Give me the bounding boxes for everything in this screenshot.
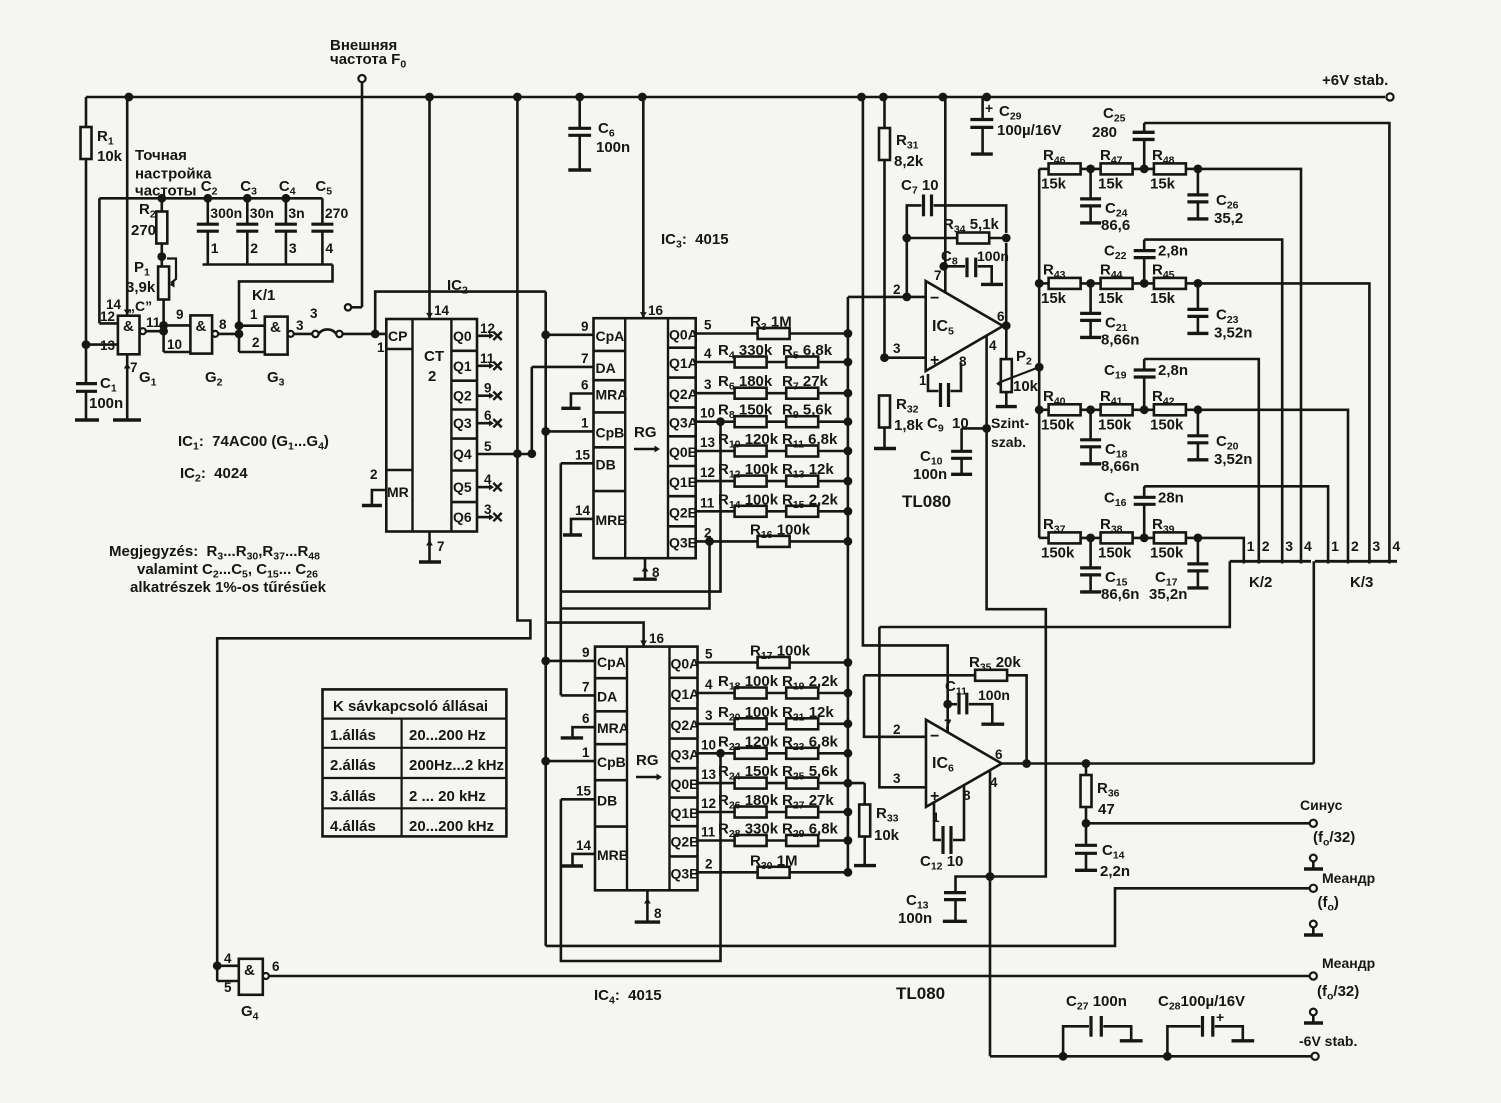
resistor R4 330k — [696, 361, 848, 364]
capacitor C10 100n — [982, 424, 991, 433]
capacitor C20 3,52n — [1197, 410, 1200, 436]
svg-text:15k: 15k — [1098, 175, 1124, 192]
svg-text:Q2: Q2 — [453, 388, 472, 404]
resistor R20 100k — [698, 722, 848, 725]
svg-text:R18 100k: R18 100k — [718, 673, 779, 693]
svg-text:RG: RG — [634, 424, 657, 441]
svg-text:10k: 10k — [1013, 378, 1039, 395]
resistor R23 6,8k — [786, 748, 818, 759]
svg-text:„C”: „C” — [128, 298, 152, 314]
svg-text:1,8k: 1,8k — [894, 417, 924, 434]
svg-text:1: 1 — [211, 240, 219, 256]
svg-text:R10 120k: R10 120k — [718, 431, 779, 451]
wire Q3B to DA-chain loop — [561, 541, 710, 608]
svg-text:20...200 Hz: 20...200 Hz — [409, 727, 486, 744]
wire IC4 DA stub — [561, 694, 595, 697]
svg-text:R16 100k: R16 100k — [750, 521, 811, 541]
svg-text:Q2A: Q2A — [669, 386, 698, 402]
node P2 wiper on filter bus — [1035, 363, 1044, 372]
IC3 left cell dividers — [594, 350, 626, 353]
node IC5 output — [1002, 321, 1011, 330]
capacitor C11 100n — [943, 700, 952, 709]
node mid junction with top capacitor — [1133, 282, 1154, 285]
svg-text:R20 100k: R20 100k — [718, 704, 779, 724]
svg-text:3n: 3n — [288, 205, 304, 221]
svg-text:Q5: Q5 — [453, 479, 472, 495]
node ladder bus y=362.0 — [844, 358, 853, 367]
node filter bus row3 — [1035, 405, 1044, 414]
node R36 bottom — [1082, 819, 1091, 828]
svg-text:2,2n: 2,2n — [1100, 863, 1130, 880]
wire sine output — [1086, 822, 1313, 825]
node R34 left — [902, 234, 911, 243]
svg-text:1: 1 — [1331, 538, 1339, 554]
svg-text:4.állás: 4.állás — [330, 818, 376, 835]
svg-text:Q0A: Q0A — [669, 327, 698, 343]
resistor R30 1M — [698, 871, 848, 874]
resistor R28 330k — [698, 839, 848, 842]
wire external frequency drop — [361, 82, 364, 307]
svg-text:R22 120k: R22 120k — [718, 733, 779, 753]
node ladder bus y=840.5 — [844, 836, 853, 845]
gate G3 NAND 74AC00 — [265, 317, 288, 355]
svg-text:4: 4 — [224, 951, 232, 966]
resistor R46 15k — [1039, 168, 1049, 171]
IC3 right cell dividers — [668, 346, 696, 349]
svg-text:6: 6 — [272, 959, 280, 974]
svg-text:Q0A: Q0A — [671, 656, 700, 672]
wire row output feed to switch — [1198, 169, 1301, 564]
svg-text:3: 3 — [1285, 538, 1293, 554]
svg-text:2: 2 — [1351, 538, 1359, 554]
resistor R32 1,8k — [879, 396, 890, 428]
capacitor C2 300n — [207, 198, 210, 224]
svg-text:DA: DA — [597, 688, 617, 704]
node mid junction with top capacitor — [1133, 408, 1154, 411]
wire G4 output meander fo/32 — [269, 975, 1313, 978]
svg-text:1: 1 — [582, 745, 590, 760]
svg-text:R28 330k: R28 330k — [718, 821, 779, 841]
svg-text:(fo/32): (fo/32) — [1317, 983, 1359, 1003]
capacitor C24 86,6 — [1089, 169, 1092, 199]
svg-text:150k: 150k — [1041, 416, 1075, 433]
svg-text:150k: 150k — [1150, 544, 1184, 561]
svg-text:15k: 15k — [1041, 290, 1067, 307]
jack symbol below sine — [1310, 855, 1317, 862]
svg-text:86,6: 86,6 — [1101, 217, 1130, 234]
wire IC6 pin2 stub and R35 branch — [864, 675, 926, 737]
svg-text:&: & — [196, 318, 207, 335]
svg-text:3.állás: 3.állás — [330, 788, 376, 805]
svg-text:Q2A: Q2A — [671, 717, 700, 733]
wire Q4 to G4 long route — [217, 454, 530, 981]
wire IC4 MRB ground — [573, 854, 596, 866]
svg-text:Меандр: Меандр — [1322, 955, 1375, 971]
svg-text:1.állás: 1.állás — [330, 727, 376, 744]
svg-text:R29 6,8k: R29 6,8k — [782, 821, 839, 841]
svg-text:6: 6 — [997, 309, 1005, 324]
svg-text:K/1: K/1 — [252, 287, 275, 304]
resistor R38 150k — [1101, 532, 1133, 543]
svg-text:Q1A: Q1A — [669, 355, 698, 371]
svg-text:1: 1 — [377, 340, 385, 355]
svg-text:R35 20k: R35 20k — [969, 654, 1021, 674]
svg-text:4: 4 — [484, 472, 492, 487]
svg-text:15k: 15k — [1150, 290, 1176, 307]
node ladder bus y=421.7 — [844, 417, 853, 426]
capacitor C27 100n — [1059, 1052, 1068, 1061]
svg-text:3: 3 — [1372, 538, 1380, 554]
svg-text:+: + — [1216, 1009, 1224, 1025]
capacitor C14 2,2n — [1085, 823, 1088, 845]
capacitor C4 3n — [285, 198, 288, 224]
node after first resistor — [1080, 537, 1100, 540]
junction on +6V rail — [575, 93, 584, 102]
svg-text:270: 270 — [325, 205, 349, 221]
svg-text:Q3B: Q3B — [669, 534, 698, 550]
svg-text:10: 10 — [167, 337, 182, 352]
shift register IC3 4015 body — [594, 318, 696, 558]
svg-text:1: 1 — [581, 415, 589, 430]
capacitor C16 28n — [1143, 486, 1146, 497]
svg-text:2.állás: 2.állás — [330, 757, 376, 774]
wire IC6 pin4 V- — [989, 770, 992, 1056]
svg-text:R21 12k: R21 12k — [782, 704, 834, 724]
svg-text:1: 1 — [919, 373, 927, 388]
svg-text:5: 5 — [705, 647, 713, 662]
ground R32 — [874, 447, 896, 450]
svg-text:(fo/32): (fo/32) — [1313, 829, 1355, 849]
node ladder bus y=723.8 — [844, 719, 853, 728]
svg-text:3: 3 — [310, 306, 318, 321]
svg-text:100n: 100n — [978, 687, 1010, 703]
capacitor C5 270 — [321, 198, 324, 224]
IC2 right column dividers — [451, 349, 477, 352]
wire R2-C2..C5 top line — [99, 197, 322, 200]
capacitor C18 8,66n — [1089, 410, 1092, 440]
node ladder bus y=541.4 — [844, 537, 853, 546]
resistor R2 270 — [161, 198, 164, 212]
capacitor C25 280 — [1143, 123, 1146, 132]
svg-text:3,52n: 3,52n — [1214, 324, 1252, 341]
capacitor C13 100n — [986, 872, 995, 881]
svg-text:Q3B: Q3B — [671, 865, 700, 881]
svg-text:CpA: CpA — [596, 328, 625, 344]
svg-text:R15 2,2k: R15 2,2k — [782, 491, 839, 511]
wire +6V drop to IC6 pin7 — [863, 97, 948, 732]
node IC4 Q3A chain — [716, 749, 725, 758]
svg-text:R6 180k: R6 180k — [718, 373, 773, 393]
node G2 input ties — [159, 321, 168, 330]
svg-text:R11 6,8k: R11 6,8k — [782, 431, 838, 451]
wire IC3 CpB stub — [546, 430, 594, 433]
svg-text:MRB: MRB — [597, 847, 629, 863]
node C2 top — [203, 194, 212, 203]
svg-text:4: 4 — [1304, 538, 1312, 554]
wire +6V rail — [86, 96, 1385, 99]
resistor R3 1M — [696, 332, 848, 335]
svg-text:Q4: Q4 — [453, 446, 472, 462]
svg-text:MRB: MRB — [596, 512, 628, 528]
svg-text:6: 6 — [995, 747, 1003, 762]
svg-text:−: − — [930, 290, 939, 307]
svg-text:K/2: K/2 — [1249, 574, 1272, 591]
svg-text:CpB: CpB — [596, 424, 625, 440]
wire IC4 Q3A to DB loop — [561, 753, 721, 961]
svg-text:200Hz...2 kHz: 200Hz...2 kHz — [409, 757, 504, 774]
svg-text:300n: 300n — [210, 205, 242, 221]
wire G1 pin12 stub — [99, 322, 118, 325]
node clock to IC3 CpB — [541, 427, 550, 436]
svg-text:270: 270 — [131, 222, 156, 239]
svg-text:2 ... 20 kHz: 2 ... 20 kHz — [409, 788, 486, 805]
wire DA feed vertical — [530, 367, 533, 454]
svg-text:DA: DA — [596, 360, 616, 376]
junction on +6V rail — [638, 93, 647, 102]
svg-text:Q2B: Q2B — [669, 504, 698, 520]
resistor R7 27k — [786, 388, 818, 399]
node IC2 Q4 - DA junction — [527, 449, 536, 458]
svg-text:R19 2,2k: R19 2,2k — [782, 673, 839, 693]
svg-text:Q0B: Q0B — [671, 776, 700, 792]
wire IC3 DB stub — [561, 462, 594, 465]
svg-text:RG: RG — [636, 752, 659, 769]
node mid junction with top capacitor — [1133, 168, 1154, 171]
resistor R42 150k — [1154, 404, 1186, 415]
wire C22 feed to switch — [1144, 240, 1282, 564]
svg-text:2,8n: 2,8n — [1158, 243, 1188, 260]
svg-text:IC1: 74AC00 (G1...G4): IC1: 74AC00 (G1...G4) — [178, 433, 329, 453]
node IC3 Q3A chain — [716, 417, 725, 426]
wire K/1 to IC2 CP — [343, 333, 387, 336]
svg-text:DB: DB — [597, 792, 617, 808]
wire to G1 pin 12 — [98, 198, 101, 323]
terminal meander fo — [1310, 885, 1317, 892]
capacitor C23 3,52n — [1197, 283, 1200, 309]
svg-text:10k: 10k — [874, 827, 900, 844]
svg-text:2: 2 — [370, 467, 378, 482]
svg-text:3: 3 — [893, 771, 901, 786]
svg-text:2: 2 — [252, 335, 260, 350]
svg-text:1: 1 — [1247, 538, 1255, 554]
table band switch positions — [323, 689, 507, 836]
wire IC4 DB stub — [561, 798, 595, 801]
node row output — [1186, 282, 1198, 285]
wire IC5 pin4 V- route — [987, 336, 1046, 877]
svg-text:150k: 150k — [1098, 416, 1132, 433]
svg-text:4: 4 — [989, 338, 997, 353]
resistor R40 150k — [1039, 408, 1049, 411]
capacitor C22 2,8n — [1143, 240, 1146, 251]
switch K/3 bar — [1315, 560, 1397, 563]
potentiometer P2 10k — [1005, 326, 1008, 360]
svg-text:12: 12 — [701, 796, 716, 811]
svg-text:&: & — [244, 962, 255, 979]
wire IC4 CpB stub — [546, 760, 595, 763]
svg-text:3,9k: 3,9k — [126, 279, 156, 296]
resistor R19 2,2k — [786, 688, 818, 699]
svg-text:2: 2 — [893, 722, 901, 737]
svg-text:Q3A: Q3A — [669, 415, 698, 431]
svg-text:частота F0: частота F0 — [330, 51, 406, 71]
svg-text:R34 5,1k: R34 5,1k — [943, 216, 1000, 236]
svg-text:valamint C2...C5, C15... C26: valamint C2...C5, C15... C26 — [137, 561, 318, 581]
IC4 right cell dividers — [670, 676, 698, 679]
gate G2 NAND 74AC00 — [190, 315, 212, 353]
svg-text:R23 6,8k: R23 6,8k — [782, 733, 839, 753]
svg-text:TL080: TL080 — [902, 492, 951, 511]
node ladder bus y=872.3 — [844, 868, 853, 877]
node ladder bus y=333.5 — [844, 329, 853, 338]
svg-text:100µ/16V: 100µ/16V — [997, 122, 1062, 139]
svg-text:K/3: K/3 — [1350, 574, 1373, 591]
node row output — [1186, 537, 1198, 540]
svg-text:1: 1 — [250, 307, 258, 322]
resistor R44 15k — [1101, 278, 1133, 289]
node ladder bus y=511.3 — [844, 507, 853, 516]
svg-text:10: 10 — [701, 737, 716, 752]
svg-text:280: 280 — [1092, 124, 1117, 141]
resistor R33 10k — [848, 782, 865, 785]
resistor R34 5,1k — [907, 237, 958, 240]
svg-text:6: 6 — [484, 408, 492, 423]
capacitor C29 100u/16V — [981, 97, 984, 120]
svg-text:R7 27k: R7 27k — [782, 373, 829, 393]
svg-text:10k: 10k — [97, 148, 123, 165]
svg-text:7: 7 — [130, 360, 138, 375]
svg-text:alkatrészek 1%-os tűrésűek: alkatrészek 1%-os tűrésűek — [130, 579, 327, 596]
node ladder bus y=753.3 — [844, 749, 853, 758]
svg-text:11: 11 — [480, 351, 495, 366]
svg-text:2,8n: 2,8n — [1158, 362, 1188, 379]
svg-text:R24 150k: R24 150k — [718, 763, 779, 783]
resistor R31 8,2k — [883, 97, 886, 128]
node C4 top — [282, 194, 291, 203]
gate G1 NAND 74AC00 — [118, 316, 140, 355]
node after first resistor — [1080, 168, 1100, 171]
ground R33 — [854, 864, 876, 867]
svg-text:R27 27k: R27 27k — [782, 792, 834, 812]
svg-text:&: & — [270, 319, 281, 336]
node ladder bus y=481.1 — [844, 477, 853, 486]
jack symbol below meander fo/32 — [1310, 1009, 1317, 1016]
capacitor C8 100n — [939, 262, 948, 271]
wire C25 feed to switch — [1144, 123, 1389, 564]
node G3 input ties — [238, 326, 241, 352]
svg-text:13: 13 — [701, 767, 717, 782]
svg-text:20...200 kHz: 20...200 kHz — [409, 818, 494, 835]
terminal -6V stab — [1312, 1053, 1319, 1060]
resistor R29 6,8k — [786, 835, 818, 846]
node after first resistor — [1080, 282, 1100, 285]
svg-text:4: 4 — [705, 677, 713, 692]
node ladder bus y=693.0 — [844, 689, 853, 698]
svg-text:9: 9 — [176, 307, 184, 322]
svg-text:13: 13 — [700, 435, 716, 450]
svg-text:TL080: TL080 — [896, 984, 945, 1003]
svg-text:9: 9 — [484, 381, 492, 396]
svg-text:6: 6 — [582, 711, 590, 726]
wire K/2 common to IC6 pin3 — [1046, 561, 1230, 627]
resistor R9 5,6k — [786, 416, 818, 427]
IC4 left cell dividers — [595, 677, 627, 680]
wire IC3 CpA stub — [546, 333, 594, 336]
capacitor C9 10 — [928, 374, 939, 391]
svg-text:4: 4 — [325, 240, 333, 256]
resistor R26 180k — [698, 811, 848, 814]
svg-text:3: 3 — [705, 708, 713, 723]
resistor R35 20k — [864, 674, 976, 677]
svg-text:3,52n: 3,52n — [1214, 451, 1252, 468]
junction on +6V rail — [939, 93, 948, 102]
svg-text:6: 6 — [581, 378, 589, 393]
svg-text:MRA: MRA — [597, 720, 629, 736]
wire IC3 MRA ground — [571, 394, 594, 409]
svg-text:8: 8 — [654, 906, 662, 921]
node ladder bus y=662.5 — [844, 658, 853, 667]
wire IC6 pin3 from K/2 — [879, 627, 926, 787]
wire G4 input stubs — [217, 964, 239, 967]
svg-text:Q1: Q1 — [453, 358, 472, 374]
wire C19 feed to switch — [1144, 359, 1259, 564]
wire IC5 pin3 stub — [885, 356, 926, 359]
junction on +6V rail — [425, 93, 434, 102]
wire IC4 MRA ground — [573, 727, 596, 738]
svg-text:2: 2 — [428, 368, 436, 385]
svg-text:3: 3 — [893, 341, 901, 356]
wire left supply drop — [85, 97, 88, 383]
node IC3 Q3B feedback — [705, 537, 714, 546]
svg-text:2: 2 — [1262, 538, 1270, 554]
junction on +6V rail — [857, 93, 866, 102]
svg-text:12: 12 — [480, 321, 495, 336]
svg-text:CpB: CpB — [597, 754, 626, 770]
svg-text:3: 3 — [289, 240, 297, 256]
resistor R37 150k — [1039, 537, 1049, 540]
svg-text:7: 7 — [581, 351, 589, 366]
wire C16 feed to switch — [1144, 486, 1328, 563]
svg-text:4: 4 — [704, 346, 712, 361]
svg-text:MRA: MRA — [596, 387, 628, 403]
resistor R16 100k — [696, 540, 848, 543]
svg-text:16: 16 — [649, 631, 665, 646]
node mid junction with top capacitor — [1133, 537, 1154, 540]
resistor R11 6,8k — [786, 446, 818, 457]
svg-text:CP: CP — [388, 328, 407, 344]
terminal +6V stab. — [1386, 93, 1393, 100]
svg-text:47: 47 — [1098, 801, 1115, 818]
junction on +6V rail — [124, 93, 133, 102]
wire clock to shift registers — [375, 292, 546, 334]
svg-text:9: 9 — [582, 645, 590, 660]
gate G4 NAND 74AC00 — [239, 959, 263, 995]
svg-text:IC3: 4015: IC3: 4015 — [661, 231, 729, 251]
resistor R14 100k — [696, 510, 848, 513]
svg-text:2: 2 — [705, 856, 713, 871]
wire row output feed to switch — [1198, 283, 1370, 563]
svg-text:100n: 100n — [913, 466, 947, 483]
svg-text:7: 7 — [582, 679, 590, 694]
resistor R21 12k — [786, 718, 818, 729]
svg-text:100n: 100n — [898, 910, 932, 927]
svg-text:R25 5,6k: R25 5,6k — [782, 763, 839, 783]
IC2 left column dividers — [386, 348, 412, 351]
node ladder bus y=451.0 — [844, 447, 853, 456]
resistor R18 100k — [698, 692, 848, 695]
svg-text:15: 15 — [575, 447, 591, 462]
svg-text:14: 14 — [576, 838, 592, 853]
node clock to IC4 CpA — [541, 657, 550, 666]
